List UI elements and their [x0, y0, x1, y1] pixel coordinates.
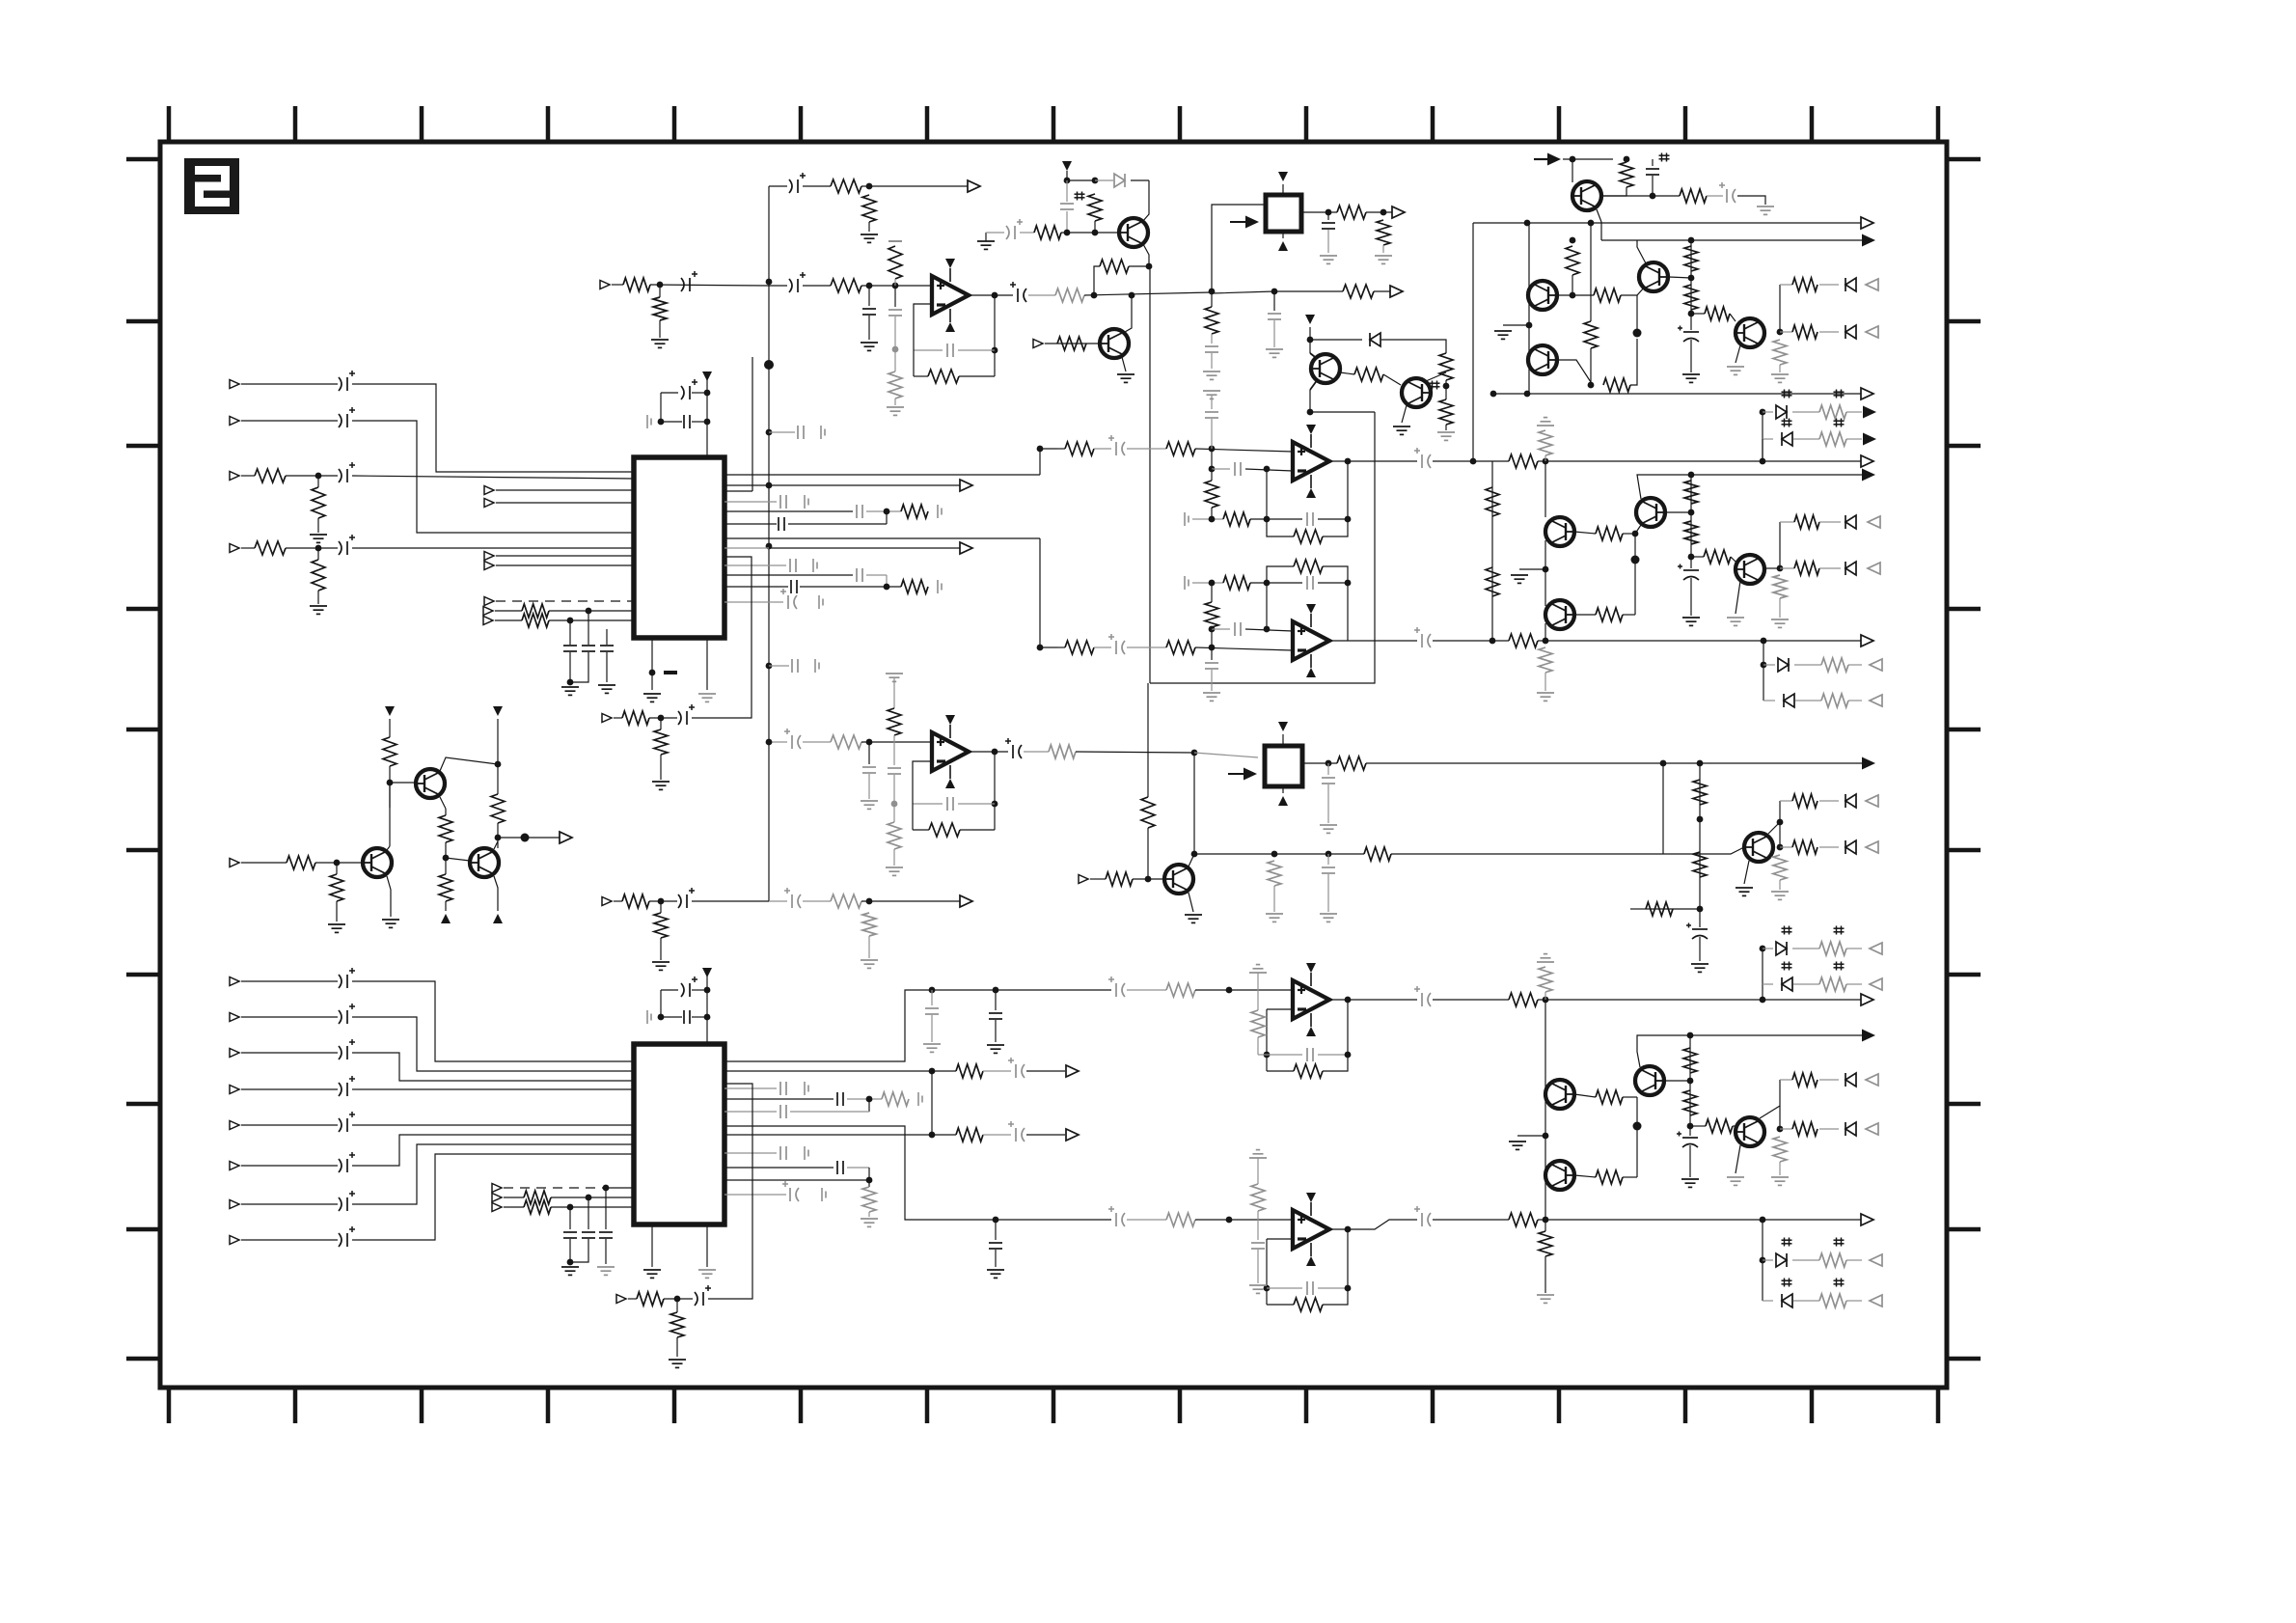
junction U7 dio: [1760, 1217, 1766, 1224]
junction U1o: [1129, 292, 1135, 299]
junction beta b3: [1632, 531, 1639, 537]
wire M rail: [1544, 1000, 1546, 1220]
capacitor C-U6out: [1414, 986, 1431, 1006]
junction A4: [315, 545, 322, 552]
transistor Q-M3: [1635, 1066, 1664, 1095]
junction L302 b: [1271, 289, 1278, 295]
wire A3 shunt: [317, 476, 319, 487]
capacitor C-U3bsh vertical: [1205, 663, 1218, 669]
wire U7 minus lead: [1267, 1238, 1293, 1240]
wire row1346 lead: [628, 1298, 637, 1300]
wire top chain: [769, 185, 787, 187]
wire tr res lead2: [1602, 187, 1626, 196]
capacitor C-T1: [789, 173, 806, 193]
resistor R-TM3: [1100, 260, 1129, 273]
wire T4 out: [498, 837, 560, 839]
wire B1 feed: [1212, 205, 1266, 291]
wire U3b mrow: [1212, 628, 1230, 630]
wire B11 lead: [504, 1206, 524, 1208]
wire U6 fbrow3: [1267, 1070, 1294, 1072]
ground GND-TM: [977, 241, 995, 249]
capacitor C-B1: [339, 968, 355, 988]
wire U2 ref lead4: [893, 849, 895, 866]
output arrow A-427: [1863, 406, 1876, 419]
wire U3a fbrow2: [1250, 518, 1302, 520]
junction U1 out: [992, 292, 998, 299]
resistor R-A10: [522, 604, 549, 618]
IC U101 main box: [634, 457, 724, 638]
wire 934 shunt: [660, 901, 662, 913]
wire beta out row: [1691, 556, 1704, 558]
wire A12 shunt: [659, 285, 661, 297]
wire L302 arrow lead: [1374, 290, 1390, 292]
wire U3b chain2: [1094, 646, 1111, 648]
wire Q2 top lead: [1310, 353, 1319, 360]
wire T2c gnd: [336, 863, 338, 874]
resistor R-beta1 vertical: [1486, 487, 1499, 516]
wire dio row689b: [1794, 664, 1821, 666]
junction a3b: [1688, 275, 1695, 282]
connector J-B6: [230, 1162, 239, 1170]
wire U6 graycap2: [931, 1015, 933, 1042]
transistor Q-b1: [1545, 517, 1574, 546]
wire r1110 chain: [932, 1070, 956, 1072]
resistor R-U3b2: [1166, 641, 1195, 654]
resistor R-A12b vertical: [653, 297, 667, 320]
wire M4 row1119: [1780, 1079, 1792, 1081]
resistor R-Tc1 vertical: [383, 737, 396, 766]
transistor Q-T2: [363, 848, 392, 877]
junction r1176: [929, 1132, 936, 1139]
ground GND-tb2b: [1727, 618, 1744, 625]
hash H-tr1: [1659, 153, 1670, 162]
wire beta rail: [1491, 461, 1493, 641]
wire A4 shunt: [317, 548, 319, 560]
wire T2 vcc: [497, 719, 499, 794]
connector J-T2: [230, 859, 239, 867]
wire M4 emit: [1736, 1145, 1740, 1173]
power arrow V-TM: [1062, 161, 1072, 171]
resistor R-983: [1819, 942, 1846, 955]
wire T2 coll: [387, 846, 390, 850]
wire U3b out: [1329, 640, 1417, 642]
wire U2 fb bottom2: [913, 829, 929, 831]
resistor R-M1b: [1596, 1090, 1623, 1104]
wire TM in2: [1020, 232, 1034, 234]
wire tr row203: [1602, 195, 1680, 197]
junction U7 out: [1345, 1226, 1352, 1233]
output arrow A-934: [960, 895, 972, 907]
wire tb2 coll: [1765, 567, 1780, 569]
wire B3 to IC2: [352, 1053, 634, 1081]
wire A12 capline: [606, 629, 608, 645]
resistor R-U3bref vertical: [1539, 647, 1552, 673]
wire T4 base: [446, 858, 470, 861]
wire U1 lowshunt4: [894, 399, 896, 405]
resistor R-q1223 vertical: [862, 1187, 876, 1212]
output arrow A-1020: [1870, 978, 1882, 990]
junction U3b fb3: [1209, 580, 1216, 587]
wire U1 fb rail: [994, 295, 996, 376]
junction B11b: [567, 1259, 574, 1266]
resistor R-a1: [1594, 289, 1621, 302]
wire U6 chain2: [969, 989, 1111, 991]
wire U2 ref lead3: [893, 775, 895, 822]
wire g row878: [1780, 846, 1792, 848]
junction U6 o3: [1543, 997, 1549, 1004]
resistor R-1119: [1792, 1073, 1818, 1087]
wire b1 to b2: [1544, 540, 1546, 606]
resistor R-U1o: [1055, 289, 1084, 302]
capacitor C-U3bm: [1235, 622, 1241, 636]
wire U1 fb bottom: [959, 375, 995, 377]
wire A10 to IC1: [549, 610, 634, 612]
wire M2 base res: [1574, 1175, 1596, 1177]
ground GND-934b: [861, 960, 878, 968]
junction n1346: [674, 1296, 681, 1303]
junction p608: [884, 584, 890, 591]
wire top chain2: [803, 185, 831, 187]
resistor R-U7a: [1166, 1213, 1195, 1226]
output arrow A-455: [1863, 433, 1876, 446]
wire M4 gnd: [1779, 1162, 1781, 1175]
junction U1b: [892, 283, 899, 289]
wire Q4 coll: [1189, 854, 1194, 867]
junction A56: [1307, 337, 1314, 344]
power arrow V-B1: [1278, 172, 1288, 181]
output arrow A-L302: [1390, 286, 1403, 297]
wire beta cap lead: [1690, 557, 1692, 568]
ground GND-A12b: [651, 340, 669, 347]
junction p558: [1037, 645, 1044, 651]
junction g942: [1697, 906, 1704, 913]
capacitor C-U1a: [789, 272, 806, 292]
wire L302 shunt: [1211, 291, 1213, 307]
component box B2: [1265, 746, 1302, 786]
wire U3b fbrow2: [1250, 582, 1302, 584]
capacitor C-U2c vertical: [888, 768, 901, 774]
wire T1 base: [390, 782, 416, 784]
wire input B4: [241, 1088, 338, 1090]
wire U1 fb left: [914, 304, 932, 376]
wire stub A6: [496, 502, 634, 504]
connector J-Q4: [1079, 875, 1088, 884]
wire r1176 chain2: [983, 1134, 1011, 1136]
wire U3a fb rail: [1211, 469, 1213, 481]
wire U1 out: [969, 294, 1013, 296]
ground GND-B9: [597, 1267, 615, 1275]
junction a1b: [1570, 292, 1576, 299]
output arrow A-878: [1866, 841, 1878, 853]
wire q row1238: [724, 1194, 786, 1196]
wire Q3 coll: [1426, 372, 1446, 381]
wire p row543b: [788, 523, 887, 525]
wire A3 res to cap: [286, 475, 338, 477]
junction U6a: [993, 987, 999, 994]
wire A10 capline: [588, 611, 589, 645]
wire IC1 deca leads: [661, 392, 678, 394]
wire a2 res2: [1630, 339, 1637, 385]
wire 1346 shunt2: [676, 1337, 678, 1357]
transistor Q-g1: [1744, 833, 1773, 862]
resistor R-1020: [1819, 977, 1846, 991]
wire U1 lowshunt3: [894, 349, 896, 371]
wire tb1 cap lead: [1690, 314, 1692, 330]
diode D-1119: [1845, 1073, 1856, 1087]
wire q row1210: [724, 1167, 834, 1169]
power arrow V-IC1: [702, 371, 712, 381]
hash H-427b: [1834, 390, 1845, 399]
power arrow V-A56: [1305, 315, 1315, 324]
wire row1346c: [708, 1084, 752, 1299]
wire p row520: [724, 501, 777, 503]
wire tb1 rail up: [1690, 240, 1692, 314]
wire input B1: [241, 980, 338, 982]
junction U6 plus: [1226, 987, 1233, 994]
output arrow A-726: [1870, 695, 1882, 706]
junction U6 fb1: [1264, 1052, 1271, 1059]
ground GND-U6a: [987, 1045, 1004, 1053]
capacitor C-q1139: [837, 1092, 843, 1106]
ground GND-B1b: [1375, 256, 1392, 263]
wire p530 down: [886, 511, 888, 524]
ground GND-Q4: [1185, 915, 1202, 922]
ground GND-tb1b: [1727, 367, 1744, 374]
junction vb797 d: [766, 482, 773, 489]
capacitor C-448: [798, 426, 804, 439]
cap end E-q1128: [805, 1082, 808, 1095]
junction dio427: [1760, 409, 1766, 416]
wire input B3: [241, 1052, 338, 1054]
junction tb1 c: [1777, 329, 1784, 336]
junction U3b m2: [1264, 626, 1271, 633]
wire T2 base: [315, 862, 362, 864]
resistor R-U1c vertical: [888, 371, 902, 399]
ground GND-M4b: [1727, 1177, 1744, 1185]
wire alpha rail: [1528, 223, 1530, 394]
wire input A12 lead: [612, 284, 623, 286]
wire U3a chain4: [1195, 449, 1293, 452]
wire U3b mrow2: [1245, 629, 1293, 631]
capacitor C-A4: [339, 535, 355, 555]
junction U7 plus: [1226, 1217, 1233, 1224]
junction U3a fb3: [1209, 516, 1216, 523]
resistor R-U6fb: [1294, 1064, 1323, 1078]
wire input B6: [241, 1165, 338, 1167]
wire B10 capline2: [570, 1239, 588, 1262]
junction g878: [1777, 844, 1784, 851]
wire p row492: [724, 474, 1040, 476]
junction tb1 low: [1688, 311, 1695, 317]
wire B9 to IC2: [606, 1187, 634, 1189]
resistor R-tb2e vertical: [1773, 575, 1787, 598]
wire TM coll drop: [1142, 180, 1149, 222]
wire U3b chain3: [1127, 646, 1166, 648]
wire U7 ref lead3: [1257, 1250, 1259, 1283]
resistor R-g1 vertical: [1693, 780, 1707, 805]
wire U6 fb rail L: [1266, 1009, 1268, 1071]
junction line492: [1688, 472, 1695, 479]
connector J-A12: [600, 281, 610, 289]
ground GND-1346: [669, 1360, 686, 1367]
capacitor C-U3b1: [1108, 634, 1125, 654]
capacitor C-B8: [339, 1226, 355, 1247]
hash H-1348b: [1834, 1279, 1845, 1287]
ground GND-T2b: [382, 920, 399, 927]
resistor R-T2c vertical: [330, 874, 343, 901]
resistor R-589: [1794, 562, 1819, 575]
junction IC1 g1: [649, 670, 656, 676]
resistor R-br2 vertical: [1684, 521, 1698, 544]
resistor R-U3afb2: [1223, 512, 1250, 526]
wire g942 row: [1646, 908, 1700, 910]
capacitor C-p596: [857, 568, 862, 582]
capacitor C-U7fb: [1307, 1281, 1313, 1295]
wire p row558: [724, 537, 1040, 539]
wire U3b fbrow: [1192, 582, 1223, 584]
ground GND-U7a: [987, 1270, 1004, 1278]
wire T4 emit: [494, 876, 498, 911]
connector J-A10: [483, 607, 493, 616]
resistor R-U7o2: [1509, 1213, 1538, 1226]
wire B1 to IC2: [352, 981, 634, 1061]
resistor R-g4: [1646, 902, 1673, 916]
junction Q2b: [1307, 409, 1314, 416]
ground GND-U6ref: [1249, 965, 1267, 973]
junction IC1 vcc b: [704, 419, 711, 426]
wire p row596b: [866, 574, 887, 576]
wire U6 ref lead3: [1258, 1054, 1267, 1056]
wire A56 vcc: [1309, 327, 1311, 353]
wire A4 to IC1: [352, 547, 634, 549]
junction TM f: [1091, 292, 1098, 299]
wire row1346b: [664, 1298, 693, 1300]
resistor R-T1: [831, 179, 861, 193]
ground GND-B11: [561, 1267, 579, 1275]
wire beta rrail: [1690, 475, 1692, 557]
resistor R-B1: [1337, 206, 1366, 219]
junction q1139: [866, 1096, 873, 1103]
junction IC2 vcc a: [704, 987, 711, 994]
wire U7 fbrow2: [1318, 1287, 1348, 1289]
capacitor C-B1 vertical: [1322, 223, 1335, 229]
wire input A4: [241, 547, 255, 549]
wire p row568 gray: [724, 547, 769, 549]
wire p row608b: [800, 586, 901, 588]
connector J-B4: [230, 1086, 239, 1094]
wire U3a fbrow3: [1318, 518, 1348, 520]
wire U7 chain2: [1127, 1219, 1166, 1221]
wire B2 cap lead2: [1327, 784, 1329, 823]
wire U6 shunt: [995, 990, 997, 1010]
capacitor C-U3ao: [1414, 448, 1431, 468]
wire T2 emit: [387, 876, 391, 917]
cap end E-690: [815, 659, 819, 673]
wire U3a out3: [1538, 460, 1861, 462]
wire gamma rail2: [1699, 763, 1701, 927]
resistor R-344: [1792, 325, 1818, 339]
diode D-1348: [1782, 1294, 1792, 1307]
wire M4 row1170: [1780, 1128, 1792, 1130]
resistor R-tb1c: [1705, 307, 1730, 320]
transistor Q-tb2: [1736, 555, 1764, 584]
capacitor C-q1128: [780, 1082, 786, 1095]
wire tb2 row589: [1780, 567, 1794, 569]
wire U3a refcap lead2: [1211, 419, 1213, 449]
connector J-A11: [483, 617, 493, 625]
resistor R-TM1 vertical: [1088, 194, 1102, 221]
wire dio rail: [1762, 412, 1763, 461]
ground GND-alpha: [1494, 331, 1512, 339]
wire row1176: [724, 1134, 932, 1136]
wire dio row726: [1763, 700, 1775, 701]
wire T1 emit: [440, 797, 446, 809]
wire tr cap top: [1652, 159, 1654, 166]
capacitor C-U7ref vertical: [1251, 1243, 1265, 1249]
wire U1 out3: [1084, 292, 1212, 295]
output arrow A-344: [1866, 326, 1878, 338]
op-amp U2: [932, 715, 969, 788]
output arrow A-1348: [1870, 1295, 1882, 1307]
wire tr row203c: [1737, 196, 1765, 205]
ground GND-744: [652, 782, 670, 789]
capacitor C-p520: [780, 495, 786, 509]
wire q row1152b: [790, 1111, 869, 1113]
wire M4 row1170b: [1819, 1128, 1839, 1130]
wire 885 capshunt2: [1327, 874, 1329, 912]
capacitor C-U1c vertical: [888, 310, 902, 316]
wire dio rail2: [1762, 439, 1763, 461]
junction a0: [1570, 237, 1576, 244]
wire IC2 gnd pin1: [651, 1224, 653, 1267]
resistor R-1348: [1819, 1294, 1846, 1307]
junction U3a o2: [1470, 458, 1477, 465]
wire b1 base res: [1574, 532, 1596, 534]
resistor R-878: [1792, 840, 1818, 854]
diode D-726: [1784, 694, 1794, 707]
diode D-427: [1776, 405, 1787, 419]
junction U2 out: [992, 749, 998, 756]
resistor R-541: [1794, 515, 1819, 529]
resistor R-U2fb: [929, 823, 960, 837]
junction n934: [658, 898, 665, 905]
wire A12 shunt2: [659, 320, 661, 338]
power arrow V-T1: [385, 706, 395, 716]
wire U3b fbv1: [1266, 583, 1268, 629]
junction vb797 g: [766, 739, 773, 746]
wire b1 base res2: [1623, 533, 1635, 535]
wire top chain3: [861, 185, 969, 187]
wire IC2 decb lead2: [692, 1016, 707, 1018]
connector J-A1: [230, 380, 239, 389]
ground GND-U6refup: [1537, 954, 1554, 962]
wire b2 base res2: [1623, 614, 1635, 616]
resistor R-g2 vertical: [1693, 852, 1707, 877]
wire U7 ref lead: [1257, 1158, 1259, 1184]
junction a2b: [1588, 382, 1595, 389]
wire U3b outrail: [1347, 583, 1349, 641]
polar cap C-beta: [1678, 564, 1699, 581]
ground GND-A4: [310, 606, 327, 614]
junction dio689: [1761, 662, 1767, 669]
transistor Q1 mute: [1100, 329, 1129, 358]
wire tr down: [1600, 222, 1602, 240]
wire A11 cap to gnd: [569, 652, 571, 682]
wire IC1 gnd pin1: [651, 638, 653, 690]
junction IC2 vcc b: [704, 1014, 711, 1021]
wire dio row1306c: [1846, 1259, 1862, 1261]
junction TM e: [1146, 263, 1153, 270]
